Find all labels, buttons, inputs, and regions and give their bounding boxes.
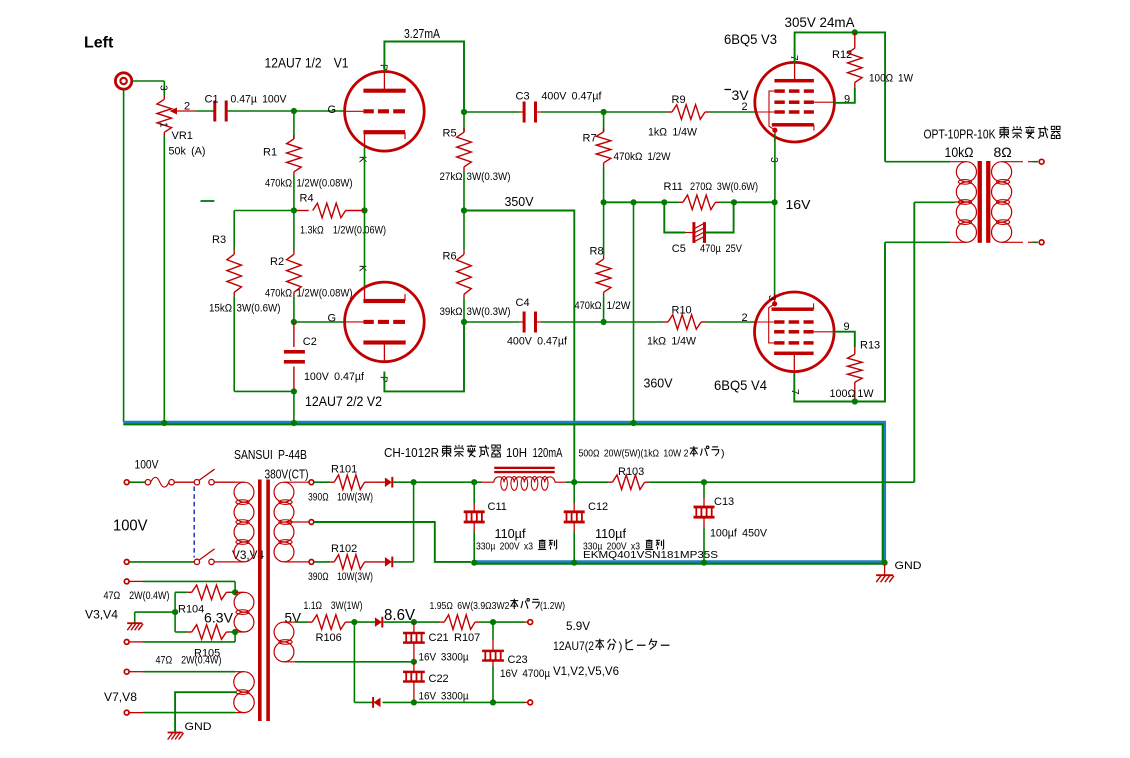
fuse F1 <box>145 480 150 485</box>
svg-text:GND: GND <box>185 721 212 733</box>
junction V2 plate/C4/R6 <box>461 319 467 325</box>
svg-text:3.27mA: 3.27mA <box>404 27 441 41</box>
switch link dashed <box>193 487 195 558</box>
wire OPT bottom to V4 column <box>885 241 950 243</box>
resistor R101 <box>314 481 330 483</box>
svg-text:350V: 350V <box>505 195 535 209</box>
wire heater V7V8 b <box>130 712 144 714</box>
diode D1 <box>385 477 392 487</box>
resistor R4 <box>294 210 309 212</box>
svg-text:): ) <box>619 639 623 653</box>
svg-text:47Ω 2W(0.4W): 47Ω 2W(0.4W) <box>104 590 170 602</box>
junction C23 bottom <box>490 699 496 705</box>
svg-text:R104: R104 <box>178 604 204 616</box>
resistor R12 <box>854 32 856 48</box>
diode D4 <box>374 698 381 708</box>
HV terminal CT <box>309 520 314 525</box>
ground bus blue <box>123 422 884 561</box>
wire V7V8 center tap <box>175 692 236 732</box>
junction bus C2 column <box>291 420 297 426</box>
potentiometer VR1 <box>163 96 165 100</box>
resistor R8 <box>603 202 605 255</box>
choke CH-1012R winding <box>474 481 482 483</box>
junction R103 out / C13 <box>701 479 707 485</box>
svg-text:100V 0.47µf: 100V 0.47µf <box>304 371 365 383</box>
terminal heater V3V4 b <box>124 640 129 645</box>
resistor R106 <box>295 621 308 623</box>
OPT primary winding <box>956 162 976 182</box>
svg-text:470µ 25V: 470µ 25V <box>700 243 743 255</box>
wire D1 to B+ node <box>393 481 413 483</box>
wire VR1 bottom to bus <box>163 136 165 423</box>
wire R4 left to R3 branch <box>234 210 294 212</box>
wire B+ to C11 <box>414 481 475 483</box>
junction bias row cathodes <box>772 199 778 205</box>
diode D3 <box>354 621 375 623</box>
svg-text:6.3V: 6.3V <box>204 611 233 626</box>
svg-text:2: 2 <box>742 312 748 324</box>
wire 350V rail <box>464 211 574 482</box>
junction C1/R1/V1 grid <box>291 108 297 114</box>
wire D3 out <box>383 621 414 623</box>
OPT secondary winding <box>992 162 1012 182</box>
svg-text:C23: C23 <box>508 654 528 666</box>
svg-text:R102: R102 <box>331 543 357 555</box>
wire heater terminal b red <box>525 701 528 703</box>
svg-text:R106: R106 <box>316 632 342 644</box>
OPT CT entry <box>955 201 966 203</box>
label C11 kanji 直列 <box>538 539 546 549</box>
svg-text:R11: R11 <box>664 181 683 193</box>
junction C11 top <box>471 479 477 485</box>
svg-text:3W(0.3W): 3W(0.3W) <box>467 171 511 183</box>
wire VR1 wiper to C1 <box>196 110 214 112</box>
junction C4/R8/R10 <box>601 319 607 325</box>
svg-text:3: 3 <box>768 157 779 163</box>
pentode V4 6BQ5 <box>755 292 835 372</box>
OPT output terminal bottom <box>1039 240 1044 245</box>
svg-text:100V: 100V <box>113 518 148 535</box>
capacitor C21 <box>413 622 415 632</box>
wire 360V drop <box>633 202 635 422</box>
svg-text:R4: R4 <box>300 193 314 205</box>
svg-text:1kΩ 1/4W: 1kΩ 1/4W <box>648 127 698 139</box>
wire V2 plate jog <box>384 322 464 391</box>
svg-text:1.1Ω 3W(1W): 1.1Ω 3W(1W) <box>304 600 363 612</box>
NFB stub dash <box>201 200 215 202</box>
capacitor C11 <box>473 482 475 503</box>
svg-text:47Ω 2W(0.4W): 47Ω 2W(0.4W) <box>156 655 222 667</box>
svg-text:C13: C13 <box>714 496 734 508</box>
junction bus VR1 <box>161 420 167 426</box>
junction plate/R5/C3 node <box>461 109 467 115</box>
wire heater bottom rail <box>414 701 525 703</box>
svg-text:R101: R101 <box>331 464 357 476</box>
wire jack to VR1 top <box>132 80 164 82</box>
resistor R7 <box>603 112 605 132</box>
svg-text:330µ 200V x3: 330µ 200V x3 <box>476 542 533 553</box>
svg-text:1.3kΩ 1/2W(0.06W): 1.3kΩ 1/2W(0.06W) <box>300 225 386 237</box>
svg-text:1/2W: 1/2W <box>607 300 632 312</box>
capacitor C3 <box>464 111 519 113</box>
ground GND symbol <box>884 564 886 575</box>
wire R3 top lead <box>233 211 235 251</box>
wire V2 cathode up <box>364 211 366 287</box>
svg-text:110µf: 110µf <box>495 527 527 541</box>
svg-text:2: 2 <box>742 101 748 113</box>
label C12 kanji 直列 <box>645 539 653 549</box>
svg-text:3: 3 <box>766 295 777 301</box>
PT HV secondary winding <box>274 482 294 502</box>
junction R104 right <box>232 589 238 595</box>
svg-text:3W(0.3W): 3W(0.3W) <box>467 306 511 318</box>
svg-text:470kΩ: 470kΩ <box>265 288 292 300</box>
wire V3 screen pin9 <box>834 88 854 103</box>
terminal AC bottom <box>124 560 129 565</box>
svg-text:39kΩ: 39kΩ <box>440 306 463 318</box>
svg-text:470kΩ: 470kΩ <box>265 178 292 190</box>
resistor R5 <box>463 112 465 132</box>
wire D4 to C22 <box>383 701 414 703</box>
junction C21 top <box>411 619 417 625</box>
junction R107 out <box>490 619 496 625</box>
wire heater V3V4 b <box>130 641 144 643</box>
resistor R2 <box>293 211 295 251</box>
svg-text:SANSUI P-44B: SANSUI P-44B <box>234 448 307 462</box>
junction C21/C22 <box>411 659 417 665</box>
svg-text:EKMQ401VSN181MP35S: EKMQ401VSN181MP35S <box>583 549 718 561</box>
ground heater center tap <box>127 622 142 624</box>
svg-text:16V 3300µ: 16V 3300µ <box>419 691 470 703</box>
svg-text:): ) <box>721 448 725 460</box>
svg-text:CH-1012R: CH-1012R <box>384 446 439 460</box>
wire V3 cathode to bias row <box>774 134 776 202</box>
wire heater ground stub <box>135 611 175 613</box>
svg-text:P: P <box>378 64 389 71</box>
svg-text:5.9V: 5.9V <box>566 619 590 633</box>
terminal heater V3V4 a <box>124 579 129 584</box>
resistor R103 <box>574 481 608 483</box>
svg-text:C5: C5 <box>672 243 686 255</box>
svg-text:Left: Left <box>84 35 114 52</box>
PT V7V8 winding <box>235 671 244 673</box>
svg-text:6BQ5 V3: 6BQ5 V3 <box>724 31 777 47</box>
svg-text:1/2W(0.08W): 1/2W(0.08W) <box>297 288 353 300</box>
svg-text:8.6V: 8.6V <box>384 607 415 624</box>
wire heater V7V8 a <box>130 671 144 673</box>
svg-text:3: 3 <box>158 85 169 91</box>
label heater kanji 本分 <box>595 639 604 650</box>
svg-text:K: K <box>357 156 368 163</box>
junction heater ground node <box>172 609 178 615</box>
svg-text:100µf 450V: 100µf 450V <box>710 528 768 540</box>
wire grid junction to V2 <box>294 321 345 323</box>
svg-text:470kΩ 1/2W: 470kΩ 1/2W <box>614 151 672 163</box>
svg-text:K: K <box>357 265 368 272</box>
label R103 value kanji 本 <box>690 446 698 456</box>
switch SW1a <box>194 480 199 485</box>
svg-text:R5: R5 <box>443 128 457 140</box>
HV terminal top <box>309 480 314 485</box>
capacitor C2 <box>293 322 295 347</box>
svg-text:G: G <box>328 104 337 116</box>
svg-text:360V: 360V <box>644 377 674 391</box>
choke core <box>494 467 555 469</box>
junction bias row C5 right <box>731 199 737 205</box>
junction 350V rail <box>461 207 467 213</box>
label R107 value kana <box>521 599 529 609</box>
label heater katakana ヒーター <box>626 639 633 650</box>
svg-text:6BQ5 V4: 6BQ5 V4 <box>714 377 767 393</box>
terminal heater out a <box>528 620 533 625</box>
svg-text:R7: R7 <box>583 133 597 145</box>
svg-text:100V: 100V <box>135 458 159 472</box>
svg-text:OPT-10PR-10K: OPT-10PR-10K <box>924 128 997 142</box>
svg-text:1.95Ω 6W(3.9Ω3W2: 1.95Ω 6W(3.9Ω3W2 <box>430 600 510 612</box>
wire bias row 16V right <box>734 201 775 203</box>
wire OPT center tap lead <box>914 201 955 203</box>
svg-text:R8: R8 <box>590 246 604 258</box>
junction bus right corner <box>882 560 888 566</box>
resistor R9 <box>604 111 667 113</box>
capacitor C23 <box>492 622 494 640</box>
wire OPT primary top lead <box>885 161 950 163</box>
svg-text:R13: R13 <box>860 340 880 352</box>
terminal AC top <box>124 480 129 485</box>
svg-text:C1: C1 <box>205 94 219 106</box>
junction bias row R7/R8 <box>601 199 607 205</box>
OPT output terminal top <box>1039 159 1044 164</box>
svg-text:270Ω 3W(0.6W): 270Ω 3W(0.6W) <box>690 181 758 193</box>
resistor R107 <box>414 621 440 623</box>
wire B+ vertical <box>413 482 415 562</box>
junction R12 top <box>852 29 858 35</box>
svg-text:500Ω 20W(5W)(1kΩ 10W 2: 500Ω 20W(5W)(1kΩ 10W 2 <box>579 448 689 460</box>
terminal heater V7V8 a <box>124 669 129 674</box>
resistor R13 <box>854 347 856 354</box>
pentode V3 6BQ5 <box>755 62 835 142</box>
capacitor C1 <box>213 101 216 122</box>
junction R13 bottom <box>852 398 858 404</box>
svg-text:V7,V8: V7,V8 <box>104 690 137 704</box>
wire VR1 top lead <box>163 81 165 96</box>
junction C22 bottom <box>411 699 417 705</box>
svg-text:100Ω 1W: 100Ω 1W <box>830 388 875 400</box>
OPT primary top entry <box>950 161 966 163</box>
svg-text:R6: R6 <box>443 251 457 263</box>
svg-text:P: P <box>378 376 389 383</box>
label R107 kanji 本 <box>510 599 518 609</box>
capacitor C22 <box>413 662 415 672</box>
wire V4 screen pin9 <box>834 332 855 347</box>
PT primary winding <box>235 481 244 483</box>
wire C1 to V1 grid <box>227 110 345 112</box>
junction bus 360V <box>630 420 636 426</box>
resistor R6 <box>463 211 465 251</box>
PT 6.3V winding <box>235 591 244 593</box>
svg-text:R2: R2 <box>270 256 284 268</box>
wire D2 to B+ vertical <box>393 561 413 563</box>
junction bus C13 foot <box>701 560 707 566</box>
svg-text:12AU7(2: 12AU7(2 <box>553 639 594 653</box>
svg-text:R12: R12 <box>832 49 852 61</box>
wire 5V return <box>295 661 414 663</box>
label -3V minus <box>725 89 732 91</box>
junction R105 right <box>232 629 238 635</box>
wire AC bottom to switch <box>130 561 195 563</box>
wire R104/R105 left join <box>174 592 176 632</box>
resistor R10 <box>604 321 663 323</box>
svg-text:16V: 16V <box>786 198 812 212</box>
wire B+ node to CT drop <box>704 481 914 483</box>
wire OPT CT drop <box>913 202 915 482</box>
svg-text:C11: C11 <box>488 501 507 513</box>
svg-text:100Ω 1W: 100Ω 1W <box>869 73 914 85</box>
svg-text:GND: GND <box>895 560 922 572</box>
wire heater terminal a red <box>525 621 528 623</box>
svg-text:V1,V2,V5,V6: V1,V2,V5,V6 <box>553 664 619 678</box>
wire fuse to switch <box>174 481 194 483</box>
resistor R105 <box>175 631 188 633</box>
wire switch to primary <box>214 481 235 483</box>
label choke kanji 東栄変成器 <box>442 445 451 457</box>
capacitor C5 electrolytic <box>664 202 685 232</box>
triode V1 12AU7 1/2 <box>345 72 425 152</box>
svg-text:R9: R9 <box>672 94 686 106</box>
resistor R102 <box>314 561 330 563</box>
capacitor C13 <box>703 482 705 498</box>
wire V4 plate to OPT <box>794 242 885 401</box>
svg-text:400V 0.47µf: 400V 0.47µf <box>542 91 603 103</box>
svg-text:16V 3300µ: 16V 3300µ <box>419 652 470 664</box>
svg-text:390Ω 10W(3W): 390Ω 10W(3W) <box>308 492 373 504</box>
svg-text:400V 0.47µf: 400V 0.47µf <box>507 336 568 348</box>
wire bias row 16V left <box>604 201 665 203</box>
wire doubler bottom left <box>353 622 355 702</box>
svg-text:110µf: 110µf <box>595 527 627 541</box>
junction bus C12 foot <box>571 560 577 566</box>
svg-text:470kΩ: 470kΩ <box>575 300 602 312</box>
terminal heater out b <box>528 700 533 705</box>
svg-text:C2: C2 <box>303 336 317 348</box>
label OPT kanji 東栄変成器 <box>1000 127 1009 139</box>
svg-text:8Ω: 8Ω <box>994 144 1012 160</box>
wire V1 plate to top rail <box>384 42 464 113</box>
wire R3 to C2 foot <box>234 390 294 392</box>
svg-text:C3: C3 <box>516 91 530 103</box>
svg-text:V3,V4: V3,V4 <box>85 608 118 622</box>
svg-text:7: 7 <box>788 55 799 61</box>
wire terminal to fuse <box>130 481 146 483</box>
svg-text:1kΩ 1/4W: 1kΩ 1/4W <box>647 336 697 348</box>
resistor R3 <box>233 250 235 254</box>
svg-text:C21: C21 <box>429 632 449 644</box>
wire to heater terminal a <box>493 621 525 623</box>
wire OPT sec bottom lead <box>1002 241 1023 243</box>
svg-text:50k (A): 50k (A) <box>169 146 206 158</box>
junction B+ D1 <box>411 479 417 485</box>
ground bus green <box>123 424 882 563</box>
junction bias row C5 left <box>661 199 667 205</box>
switch SW1b <box>194 559 199 564</box>
svg-text:VR1: VR1 <box>172 130 193 142</box>
junction C3/R7/R9 <box>601 109 607 115</box>
PT core <box>258 480 262 722</box>
capacitor C4 <box>464 321 519 323</box>
svg-text:R3: R3 <box>212 234 226 246</box>
junction bus C11 foot <box>471 560 477 566</box>
input jack J1 <box>115 73 131 89</box>
svg-text:3W(0.6W): 3W(0.6W) <box>237 303 281 315</box>
svg-text:0.47µ 100V: 0.47µ 100V <box>231 94 288 106</box>
svg-text:R1: R1 <box>263 147 277 159</box>
wire CT ground path <box>314 522 471 562</box>
capacitor C12 <box>573 482 575 503</box>
svg-text:C4: C4 <box>516 297 530 309</box>
wire jack ground drop <box>123 90 125 423</box>
svg-text:305V 24mA: 305V 24mA <box>785 15 855 30</box>
junction choke out / 350V <box>571 479 577 485</box>
junction R2/C2/V2 grid <box>291 319 297 325</box>
wire V3 plate rail <box>795 32 886 161</box>
svg-text:R103: R103 <box>618 466 644 478</box>
svg-text:(1.2W): (1.2W) <box>540 600 565 612</box>
resistor R104 <box>175 591 188 593</box>
svg-text:1: 1 <box>158 122 169 128</box>
svg-text:5V: 5V <box>285 611 302 626</box>
resistor R11 <box>664 201 679 203</box>
junction C2 foot <box>291 388 297 394</box>
HV terminal bottom <box>309 560 314 565</box>
wire V1 cathode down <box>364 148 366 211</box>
wire V4 cathode to bias row <box>774 202 776 300</box>
OPT core <box>978 161 982 243</box>
wire OPT sec top lead <box>1002 161 1023 163</box>
svg-text:16V 4700µ: 16V 4700µ <box>500 668 551 680</box>
PT 5V winding <box>274 622 294 642</box>
svg-text:10kΩ: 10kΩ <box>945 144 974 160</box>
svg-text:C22: C22 <box>429 673 449 685</box>
wire heater V3V4 a <box>130 580 144 582</box>
svg-text:12AU7 2/2 V2: 12AU7 2/2 V2 <box>305 393 382 409</box>
svg-text:12AU7 1/2 V1: 12AU7 1/2 V1 <box>265 55 349 71</box>
terminal heater V7V8 b <box>124 710 129 715</box>
VR1 wiper arrow <box>170 108 178 115</box>
svg-text:1/2W(0.08W): 1/2W(0.08W) <box>297 178 353 190</box>
diode D2 <box>385 557 392 567</box>
svg-text:15kΩ: 15kΩ <box>209 303 232 315</box>
junction R4 left <box>291 207 297 213</box>
svg-text:390Ω 10W(3W): 390Ω 10W(3W) <box>308 571 373 583</box>
triode V2 12AU7 2/2 <box>345 282 425 362</box>
resistor R1 <box>293 111 295 139</box>
junction R4 right / cathode <box>361 207 367 213</box>
junction bias row 360V drop <box>630 199 636 205</box>
svg-text:27kΩ: 27kΩ <box>440 171 463 183</box>
svg-text:10H: 10H <box>506 446 527 460</box>
svg-text:C12: C12 <box>588 501 608 513</box>
svg-text:R10: R10 <box>672 305 692 317</box>
label R103 value kana <box>700 446 708 456</box>
svg-text:380V(CT): 380V(CT) <box>265 468 309 482</box>
junction doubler in <box>351 619 357 625</box>
svg-text:120mA: 120mA <box>533 446 563 460</box>
wire switch to primary bottom <box>214 561 235 563</box>
ground GND heater <box>168 732 183 734</box>
svg-text:2: 2 <box>184 101 190 113</box>
wire C2 foot to bus <box>293 391 295 423</box>
svg-text:R107: R107 <box>454 632 480 644</box>
